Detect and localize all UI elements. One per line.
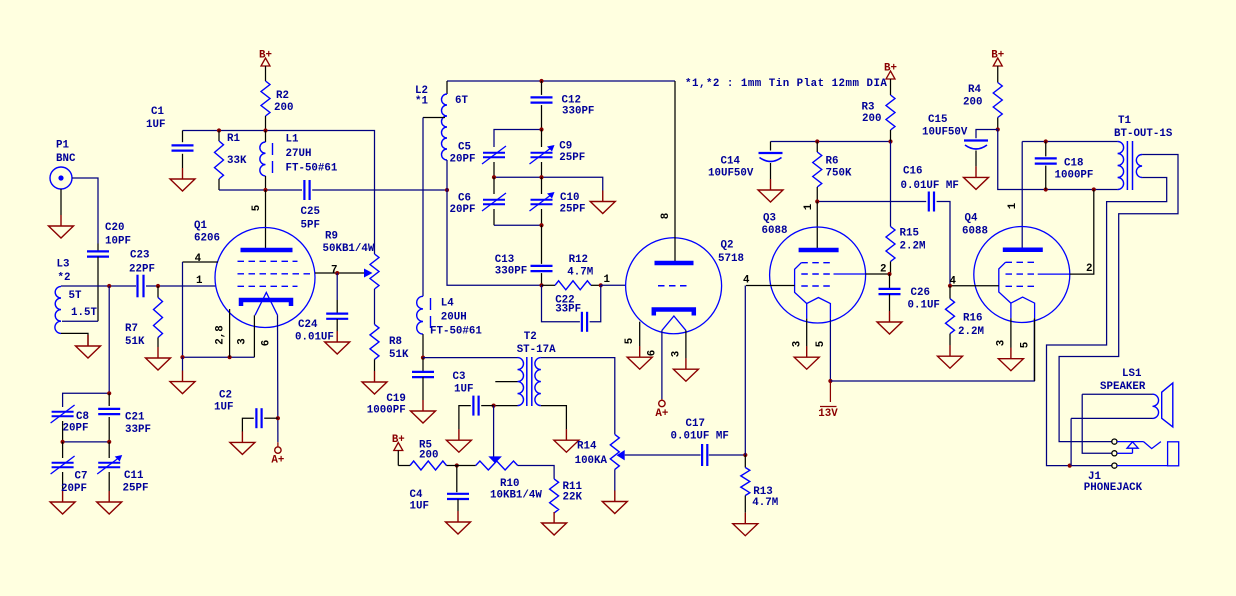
svg-text:1UF: 1UF	[454, 384, 473, 396]
Q1 plate bar	[241, 248, 293, 253]
heater rail 13V wire	[830, 319, 1034, 381]
junction node C18 bottom	[1044, 187, 1048, 191]
svg-text:C23: C23	[130, 250, 149, 262]
wire L3 bottom to ground	[61, 333, 88, 346]
wire speaker bottom to sleeve bus	[1070, 418, 1072, 465]
svg-text:1UF: 1UF	[146, 119, 165, 131]
svg-text:6088: 6088	[962, 226, 988, 238]
ground under P1	[60, 189, 62, 215]
ground under T2 secondary	[565, 429, 567, 440]
svg-text:C26: C26	[911, 287, 930, 299]
svg-text:6088: 6088	[762, 225, 788, 237]
svg-text:22PF: 22PF	[129, 264, 155, 276]
svg-text:1: 1	[1007, 202, 1019, 209]
junction node speaker return	[1068, 464, 1072, 468]
capacitor C23 22PF	[136, 275, 138, 298]
resistor R16 2.2M	[949, 286, 951, 299]
wire L4 bottom to T2 and C19	[422, 334, 424, 358]
svg-text:1000PF: 1000PF	[1055, 170, 1094, 182]
svg-text:C3: C3	[453, 371, 466, 383]
wire R12 to Q2 grid	[601, 284, 626, 286]
svg-text:100KA: 100KA	[575, 455, 608, 467]
capacitor C12 330PF	[541, 81, 543, 95]
junction node C7 top	[61, 440, 65, 444]
jack ring contact	[1117, 452, 1133, 454]
svg-text:3: 3	[996, 340, 1008, 346]
svg-text:25PF: 25PF	[559, 152, 585, 164]
wire L3 top / grid net	[61, 285, 136, 287]
svg-text:2.2M: 2.2M	[900, 241, 926, 253]
potentiometer R10 10KB1/4W	[476, 461, 518, 470]
capacitor C20 10PF	[97, 244, 99, 252]
svg-text:4: 4	[743, 275, 750, 287]
power B+ above R3	[886, 71, 895, 79]
svg-text:20UH: 20UH	[441, 312, 467, 324]
resistor R1 33K	[218, 131, 220, 142]
svg-text:L4: L4	[441, 298, 454, 310]
resistor R2 200	[265, 66, 267, 81]
svg-text:13V: 13V	[818, 408, 838, 420]
Q4 pin 3 wire to ground	[1010, 318, 1012, 348]
capacitor C13 330PF	[541, 225, 543, 264]
Q3 pin 3 wire to ground	[806, 319, 808, 347]
ground under C2	[241, 431, 243, 442]
Q2 heater	[662, 316, 686, 330]
svg-text:5T: 5T	[69, 290, 82, 302]
junction node R16 top	[948, 284, 952, 288]
svg-text:C21: C21	[125, 412, 145, 424]
Q4 grid rows	[1006, 261, 1038, 263]
junction node C2	[276, 416, 280, 420]
svg-text:10UF50V: 10UF50V	[708, 168, 754, 180]
Q2 pin 3 wire to ground	[685, 330, 687, 358]
junction node C12 bottom	[539, 127, 543, 131]
Q2 grid row	[658, 285, 690, 287]
wire T2 secondary bottom to ground	[541, 406, 567, 430]
svg-text:SPEAKER: SPEAKER	[1100, 381, 1146, 393]
resistor R8 51K	[370, 324, 379, 359]
Q3 pin 5 wire to heater rail	[829, 319, 831, 381]
svg-text:51K: 51K	[389, 349, 409, 361]
ground under R14	[614, 491, 616, 502]
wire C8 branch	[63, 393, 110, 407]
svg-text:C16: C16	[903, 166, 922, 178]
ground under C24	[336, 331, 338, 342]
capacitor C4 1UF	[456, 466, 458, 493]
svg-text:C25: C25	[301, 206, 320, 218]
svg-text:2.2M: 2.2M	[958, 326, 984, 338]
Q1 pin 7 wire to R9 wiper	[315, 272, 364, 274]
svg-text:*1: *1	[415, 96, 428, 108]
potentiometer R14 100KA	[610, 434, 619, 469]
wire Q3 plate node y=201.5	[817, 201, 926, 203]
tube Q4 6088	[974, 227, 1070, 323]
svg-text:6: 6	[261, 340, 273, 346]
svg-text:ST-17A: ST-17A	[517, 344, 556, 356]
svg-text:R13: R13	[753, 486, 772, 498]
svg-text:C5: C5	[458, 142, 471, 154]
svg-text:FT-50#61: FT-50#61	[430, 326, 482, 338]
jack tip contact	[1117, 441, 1144, 443]
Q3 pin 2 wire to R15/C26	[866, 273, 890, 275]
svg-text:6T: 6T	[455, 95, 468, 107]
ground under C19	[422, 400, 424, 411]
power A+ Q1 pin 6	[277, 442, 279, 447]
junction node R6 top	[815, 139, 819, 143]
Q4 cathode shape	[1011, 297, 1035, 318]
transformer T2 ST-17A	[423, 357, 518, 359]
wire wiper down to R10	[493, 406, 495, 457]
ground under C4	[457, 511, 459, 522]
svg-text:33PF: 33PF	[555, 304, 581, 316]
svg-text:B+: B+	[884, 63, 897, 75]
svg-text:1: 1	[604, 274, 611, 286]
wire R14 bottom to ground	[614, 469, 616, 491]
svg-text:20PF: 20PF	[63, 423, 89, 435]
svg-text:200: 200	[419, 449, 438, 461]
junction node on L2 bottom lead	[445, 188, 449, 192]
capacitor C25 5PF	[303, 180, 305, 200]
svg-text:C18: C18	[1064, 158, 1083, 170]
svg-text:3: 3	[237, 338, 249, 344]
svg-text:C14: C14	[721, 156, 741, 168]
Q2 cathode	[654, 310, 694, 316]
svg-text:Q1: Q1	[194, 220, 207, 232]
transformer T1 BT-OUT-1S	[1118, 142, 1124, 190]
svg-text:R15: R15	[900, 228, 919, 240]
svg-text:5: 5	[624, 338, 636, 344]
jack body	[1168, 442, 1179, 466]
wire plate-supply bus y=130	[183, 131, 375, 255]
speaker cone	[1162, 383, 1173, 427]
phone jack J1 contacts	[1112, 439, 1117, 444]
capacitor C11 25PF trimmer	[108, 442, 110, 458]
capacitor C10 25PF trimmer	[541, 177, 543, 194]
ground under R11	[553, 512, 555, 523]
capacitor C15 10UF50V	[976, 130, 998, 139]
svg-text:R1: R1	[227, 133, 240, 145]
wire T2 primary bottom to C3 and R10 wiper	[494, 405, 518, 407]
tube Q1 6206	[215, 228, 315, 328]
resistor R11 22K	[550, 479, 559, 513]
svg-text:25PF: 25PF	[123, 483, 149, 495]
wire T1 secondary bottom to jack sleeve	[1047, 178, 1167, 466]
svg-text:C10: C10	[560, 192, 579, 204]
Q1 cathode	[241, 300, 291, 306]
svg-text:L1: L1	[286, 134, 299, 146]
capacitor C7 20PF variable	[62, 442, 64, 458]
svg-text:10UF50V: 10UF50V	[922, 127, 968, 139]
svg-text:20PF: 20PF	[450, 154, 476, 166]
resistor R6 750K	[816, 142, 818, 153]
svg-text:R14: R14	[577, 441, 597, 453]
junction node C19 top	[421, 356, 425, 360]
wire up to Q3 pin 4	[744, 286, 746, 456]
svg-text:*1,*2 : 1mm Tin Plat 12mm DIA: *1,*2 : 1mm Tin Plat 12mm DIA	[685, 78, 887, 90]
svg-text:C2: C2	[219, 390, 232, 402]
Q3 plate bar	[799, 248, 839, 253]
svg-text:4.7M: 4.7M	[567, 267, 593, 279]
svg-text:10KB1/4W: 10KB1/4W	[490, 489, 542, 501]
inductor L4 20UH FT-50#61	[417, 296, 423, 334]
svg-text:R4: R4	[968, 84, 981, 96]
resistor R12 4.7M	[542, 284, 556, 286]
wire top bus L2 to Q2 plate	[447, 80, 675, 82]
svg-text:C6: C6	[458, 193, 471, 205]
svg-text:C20: C20	[105, 222, 124, 234]
svg-text:51K: 51K	[125, 336, 145, 348]
capacitor C16 0.01UF MF	[928, 192, 930, 212]
ground under R16	[949, 345, 951, 356]
svg-text:B+: B+	[259, 50, 272, 62]
ground under C1	[182, 168, 184, 179]
junction node R3 bottom	[888, 139, 892, 143]
jack sleeve wire	[1117, 465, 1168, 467]
junction node C20-C21 branch	[107, 284, 111, 288]
ground under R7	[157, 347, 159, 358]
ground under C11	[108, 491, 110, 502]
svg-text:4.7M: 4.7M	[752, 497, 778, 509]
resistor R7 51K	[157, 286, 159, 298]
junction node C13 bottom	[539, 283, 543, 287]
wire R14 wiper to C17	[625, 454, 701, 456]
svg-text:5: 5	[815, 341, 827, 347]
svg-text:A+: A+	[655, 408, 668, 420]
wire Q4 plate to T1 primary top	[1022, 141, 1117, 143]
svg-text:A+: A+	[271, 455, 284, 467]
resistor R15 2.2M	[886, 227, 895, 262]
Q3 cathode shape	[807, 298, 831, 319]
svg-text:200: 200	[274, 102, 293, 114]
Q1 pin 6 wire to A+	[277, 315, 279, 442]
junction node L1 top	[263, 128, 267, 132]
connector P1 BNC	[50, 167, 72, 189]
svg-text:0.01UF MF: 0.01UF MF	[671, 431, 729, 443]
svg-text:B+: B+	[991, 50, 1004, 62]
Q1 grid rows	[238, 260, 298, 262]
wire C23 to Q1 grid pin 1	[146, 285, 216, 287]
junction node C9 bottom	[539, 175, 543, 179]
svg-text:PHONEJACK: PHONEJACK	[1084, 482, 1143, 494]
svg-text:1000PF: 1000PF	[367, 405, 406, 417]
svg-text:LS1: LS1	[1122, 368, 1142, 380]
wire R3 down to R15	[890, 142, 892, 227]
junction node R7	[156, 284, 160, 288]
svg-text:C11: C11	[124, 470, 144, 482]
svg-text:20PF: 20PF	[450, 204, 476, 216]
wire C17 to R13 junction	[709, 454, 746, 456]
svg-text:1UF: 1UF	[214, 402, 233, 414]
wire L1 bottom bus y=190 to C25 and Q1 plate	[219, 189, 302, 191]
svg-text:C7: C7	[75, 471, 88, 483]
svg-text:2: 2	[880, 264, 886, 276]
Q4 grid 2 extension	[1038, 273, 1070, 275]
junction node pin 7	[335, 271, 339, 275]
svg-text:BT-OUT-1S: BT-OUT-1S	[1114, 128, 1173, 140]
svg-text:2,8: 2,8	[215, 325, 227, 344]
svg-text:R9: R9	[325, 231, 338, 243]
svg-text:C17: C17	[686, 418, 705, 430]
potentiometer R9 50KB1/4W	[364, 269, 373, 278]
Q3 pin 4 wire	[746, 285, 795, 287]
resistor R3 200	[890, 79, 892, 95]
junction node C18 top	[1044, 139, 1048, 143]
wire down to C21/C8 network	[108, 286, 110, 393]
Q4 pin 5 wire to heater rail	[1034, 318, 1036, 381]
junction node C21 top	[107, 391, 111, 395]
junction node 13V	[828, 379, 832, 383]
svg-text:BNC: BNC	[56, 153, 76, 165]
junction node C11 top	[107, 440, 111, 444]
Q4 plate bar	[1003, 248, 1043, 253]
ground under C7	[62, 491, 64, 502]
svg-text:3: 3	[671, 351, 683, 357]
junction node C15	[996, 127, 1000, 131]
wire C16 to Q4 grid node	[937, 202, 950, 286]
svg-text:C24: C24	[298, 319, 318, 331]
junction node R12 right pin 1 of Q2	[599, 283, 603, 287]
ground under C14	[770, 179, 772, 190]
svg-text:3: 3	[792, 341, 804, 347]
wire C6-C10 bottom	[494, 224, 542, 226]
svg-text:T2: T2	[524, 331, 537, 343]
capacitor C21 33PF	[108, 393, 110, 406]
svg-text:0.1UF: 0.1UF	[908, 300, 940, 312]
svg-text:6206: 6206	[194, 233, 220, 245]
svg-text:27UH: 27UH	[286, 148, 312, 160]
ground under R8	[374, 371, 376, 382]
Q4 pin 4 wire	[950, 285, 999, 287]
wire R9 to R8	[374, 289, 376, 324]
ground under L3	[87, 335, 89, 346]
Q1 ground bus y=357	[183, 356, 255, 358]
capacitor C18 1000PF	[1045, 142, 1047, 157]
power A+ Q2	[661, 399, 663, 400]
power 13V	[829, 381, 831, 402]
svg-text:2: 2	[1086, 263, 1092, 275]
Q2 plate bar	[655, 261, 694, 266]
capacitor C9 25PF trimmer	[541, 130, 543, 148]
Q4 pin 2 wire to screen feed	[1070, 190, 1094, 275]
capacitor C26 0.1UF	[889, 274, 891, 289]
Q3 grid 2 extension	[834, 273, 866, 275]
Q4 grid tie	[999, 262, 1011, 303]
ground under R13	[744, 513, 746, 524]
svg-text:5: 5	[251, 205, 263, 211]
Q3 grid rows	[801, 262, 833, 264]
svg-text:R3: R3	[862, 102, 875, 114]
svg-text:33PF: 33PF	[125, 424, 151, 436]
svg-text:330PF: 330PF	[495, 265, 527, 277]
junction node C12 top	[539, 79, 543, 83]
Q3 grid tie	[795, 263, 807, 304]
svg-text:C4: C4	[410, 489, 423, 501]
wire speaker top to jack ring	[1082, 394, 1112, 453]
wire L3 tap to C20	[62, 320, 98, 322]
power B+ mid	[394, 443, 403, 451]
junction node C4 top	[455, 463, 459, 467]
svg-text:5718: 5718	[718, 253, 744, 265]
capacitor C19 1000PF	[422, 358, 424, 372]
junction node pin4 ground	[180, 355, 184, 359]
ground under C3	[458, 429, 460, 440]
svg-text:0.01UF MF: 0.01UF MF	[901, 180, 959, 192]
wire L2 bottom to C13 bus	[447, 160, 542, 285]
wire C12 bottom to C5	[494, 130, 542, 148]
resistor R5 200	[397, 451, 399, 466]
capacitor C22 33PF loop	[542, 285, 580, 322]
Q3 plate lead pin 1	[816, 202, 818, 249]
Q1 pin 3 wire	[253, 315, 255, 357]
T2 primary tap stub	[495, 381, 517, 383]
svg-text:8: 8	[660, 213, 672, 219]
svg-text:*2: *2	[58, 272, 71, 284]
svg-text:1UF: 1UF	[410, 501, 429, 513]
junction node L1 bottom	[263, 188, 267, 192]
svg-text:1: 1	[803, 203, 815, 210]
svg-text:5: 5	[1020, 342, 1032, 348]
jack switch arrow	[1127, 442, 1138, 454]
inductor L3 tapped antenna coil	[55, 286, 61, 321]
svg-text:330PF: 330PF	[562, 106, 594, 118]
junction node C3 right	[492, 404, 496, 408]
junction node R15 bottom	[887, 272, 891, 276]
wire P1 to C20	[72, 178, 98, 244]
capacitor C3 1UF	[472, 396, 474, 416]
resistor R4 200	[997, 66, 999, 83]
svg-text:R7: R7	[125, 323, 138, 335]
junction node C10 bottom	[539, 223, 543, 227]
wire T2 secondary top to R14	[541, 358, 615, 435]
svg-text:200: 200	[963, 97, 982, 109]
svg-text:C15: C15	[928, 114, 947, 126]
svg-text:6: 6	[647, 350, 659, 356]
Q1 pin 4 wire and label	[183, 261, 219, 263]
wire C8-C21 bottom bus	[63, 441, 110, 443]
capacitor C2 1UF	[255, 408, 257, 428]
junction node Q4 screen feed	[1092, 187, 1096, 191]
svg-text:Q2: Q2	[721, 240, 734, 252]
svg-text:4: 4	[195, 253, 202, 265]
inductor L1 27UH FT-50#61	[265, 131, 267, 143]
svg-text:Q3: Q3	[763, 213, 776, 225]
junction node R1 top	[217, 128, 221, 132]
svg-text:B+: B+	[392, 434, 405, 446]
capacitor C8 20PF variable	[52, 411, 74, 413]
svg-text:10PF: 10PF	[105, 236, 131, 248]
wire T1 secondary top to jack tip	[1059, 155, 1178, 442]
svg-text:C8: C8	[76, 411, 89, 423]
wire L2 tap to L4	[423, 117, 445, 119]
svg-text:R6: R6	[826, 156, 839, 168]
svg-text:C9: C9	[559, 141, 572, 153]
ground under C15	[975, 166, 977, 177]
wire C5-C9 bottom to ground	[494, 177, 603, 190]
junction node C5 bottom	[492, 175, 496, 179]
ground under C26	[889, 311, 891, 322]
svg-text:1: 1	[196, 275, 203, 287]
Q4 plate lead pin 1	[1021, 142, 1023, 249]
wire Q1 plate lead pin 5	[265, 190, 267, 248]
capacitor C14 10UF50V	[770, 142, 772, 151]
Q2 pin 5 wire to ground	[639, 322, 641, 347]
capacitor C5 20PF variable	[483, 152, 505, 154]
inductor L2 6T tap	[446, 81, 448, 94]
wire R4 to T1 primary bottom	[998, 130, 1118, 190]
wire C25 to L2 bottom net	[312, 189, 447, 191]
tube Q2 5718	[626, 238, 722, 334]
wire R10 to R11	[518, 466, 554, 479]
